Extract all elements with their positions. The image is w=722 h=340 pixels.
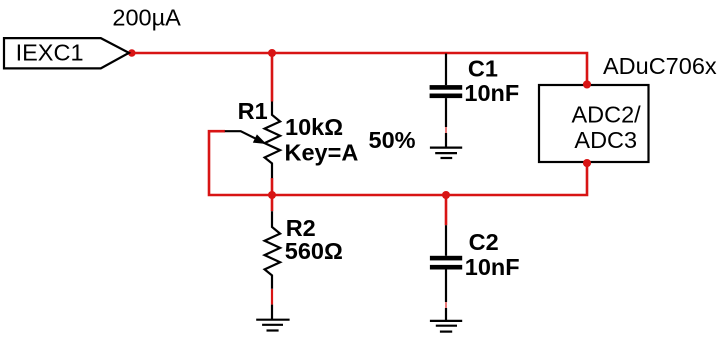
wire R2 bottom stub [271,289,273,305]
ground below C1 [430,148,462,158]
node junction ADC box bottom [583,159,591,167]
resistor R2 body [265,211,281,289]
svg-text:200µA: 200µA [112,5,181,31]
node junction at IEXC1 tip [128,49,136,57]
wire top net from IEXC1 to ADC box [131,53,587,85]
svg-text:50%: 50% [369,127,416,153]
op-amp block ADC2/ADC3 box [539,85,649,162]
wire R1 top stub [271,53,274,102]
resistor R1 potentiometer body [265,102,281,179]
svg-text:Key=A: Key=A [285,140,359,166]
wire R2 top stub [271,195,274,211]
svg-text:ADC2/: ADC2/ [572,102,642,128]
node junction redraw box bottom [583,159,591,167]
node junction redraw box top [583,81,591,89]
ground below C2 [430,321,462,332]
svg-text:R1: R1 [238,98,268,124]
node junction bottom C2 [442,191,450,199]
capacitor C2 [445,225,447,256]
svg-text:10nF: 10nF [464,80,519,106]
node junction top R1 [268,49,276,57]
wire C2 bottom stub [445,302,447,308]
svg-text:10nF: 10nF [465,254,520,280]
wire C2 top stub [445,195,448,225]
svg-text:IEXC1: IEXC1 [16,40,84,66]
wire C1 bottom stub [445,127,447,133]
node junction ADC box top [583,81,591,89]
svg-text:C1: C1 [468,56,498,82]
svg-text:560Ω: 560Ω [285,238,343,264]
connector IEXC1 tag [4,38,129,68]
wire R1 bottom stub [271,178,274,195]
ground below R2 [256,320,289,331]
svg-text:ADuC706x: ADuC706x [603,53,717,79]
wire R2 to ground [271,305,273,319]
wire bottom net horizontal [209,131,587,195]
svg-text:ADC3: ADC3 [574,127,637,153]
svg-text:C2: C2 [469,229,499,255]
resistor R1 wiper arrow [225,131,256,139]
capacitor C1 [445,54,447,86]
node junction bottom R1/R2 [268,191,276,199]
svg-text:10kΩ: 10kΩ [285,114,343,140]
